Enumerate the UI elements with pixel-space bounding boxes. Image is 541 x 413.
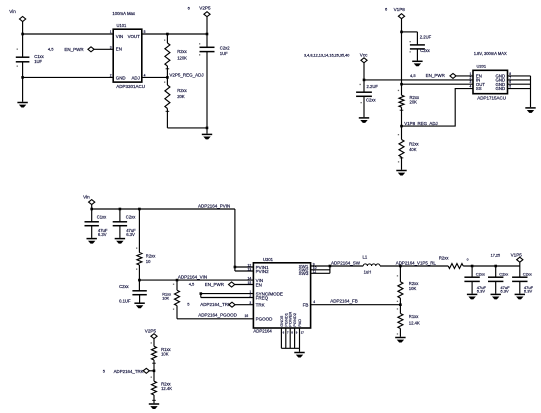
svg-text:3: 3 — [110, 45, 112, 49]
svg-text:C1xx: C1xx — [97, 215, 107, 220]
svg-text:2: 2 — [249, 294, 251, 298]
ground (FB divider) — [395, 337, 405, 339]
wire EN_PWR to EN pin — [235, 284, 254, 286]
svg-text:0.1UF: 0.1UF — [119, 298, 131, 303]
svg-text:V1P8_REG_ADJ: V1P8_REG_ADJ — [404, 121, 437, 126]
svg-text:VOUT: VOUT — [128, 34, 141, 39]
svg-text:TRK: TRK — [256, 303, 265, 308]
wire PVIN1 stub — [235, 266, 254, 268]
junction output capA — [471, 265, 474, 268]
svg-text:1UF: 1UF — [220, 51, 228, 56]
svg-text:6.3V: 6.3V — [126, 232, 135, 237]
svg-text:2.2UF: 2.2UF — [420, 35, 432, 40]
wire EN_PWR to EN pin — [94, 48, 113, 50]
wire capB to ground — [119, 226, 121, 238]
wire Vin to VIN pin — [23, 33, 114, 35]
wire PVIN rail — [92, 208, 235, 210]
wire Vcc down — [363, 63, 365, 92]
svg-text:ADP2164_TRK: ADP2164_TRK — [200, 302, 231, 307]
svg-text:40K: 40K — [409, 147, 417, 152]
svg-text:GND: GND — [496, 86, 506, 91]
svg-text:17: 17 — [301, 331, 305, 335]
svg-text:17,25: 17,25 — [491, 253, 501, 257]
junction Vin rail — [90, 208, 93, 211]
resistor R2xx 10 (VIN filter) — [138, 209, 140, 253]
wire ground bus — [281, 347, 299, 349]
svg-text:R2xx: R2xx — [177, 49, 187, 54]
svg-text:2: 2 — [110, 73, 112, 77]
ground (out cap B) — [491, 293, 501, 295]
wires bottom pins to ground bus — [280, 328, 282, 348]
svg-text:4,5: 4,5 — [410, 73, 416, 78]
junction VIN/cap — [138, 279, 141, 282]
svg-text:20K: 20K — [410, 100, 418, 105]
svg-text:V1P5: V1P5 — [511, 252, 523, 257]
capacitor C2xx 0.1UF — [138, 280, 140, 291]
svg-text:SW3: SW3 — [299, 271, 309, 276]
wire EN_PWR to EN — [456, 75, 473, 77]
svg-text:3: 3 — [470, 80, 472, 84]
wire cap branch — [402, 31, 418, 33]
capacitor C2xx 47uF (out C) — [519, 266, 521, 277]
wire FREQ tie — [201, 297, 254, 299]
svg-text:6.3V: 6.3V — [477, 289, 486, 294]
capacitor C2xx 47uF (out A) — [471, 266, 473, 277]
wire PAD to ground — [299, 348, 301, 352]
wire inductor to output node — [380, 265, 448, 267]
svg-text:16: 16 — [245, 314, 249, 318]
junction Vin/VIN — [21, 33, 24, 36]
junction V1P8_REG_ADJ — [400, 125, 403, 128]
junction cap branch — [400, 31, 403, 34]
svg-text:EN_PWR: EN_PWR — [205, 282, 225, 287]
wire SYNC/MODE tie — [201, 293, 254, 295]
svg-text:1UF: 1UF — [34, 59, 42, 64]
resistor R2xx 10K (FB top) — [399, 266, 401, 282]
svg-text:VIN: VIN — [116, 34, 123, 39]
wire cap to ground — [416, 49, 418, 61]
svg-text:L1: L1 — [363, 254, 368, 259]
resistor R2xx 12.4K (TRK bottom) — [153, 371, 155, 381]
capacitor C2xx 47uF (out B) — [495, 266, 497, 277]
svg-text:10K: 10K — [162, 296, 169, 301]
svg-text:12.4K: 12.4K — [161, 386, 172, 391]
svg-text:V1P8: V1P8 — [394, 7, 406, 12]
svg-text:4,5: 4,5 — [48, 47, 54, 52]
resistor R2xx 120K — [166, 34, 168, 43]
svg-text:3: 3 — [249, 301, 251, 305]
wire Vin stub — [91, 205, 93, 222]
ground (V2P5) — [202, 133, 212, 135]
svg-text:ADP2164_V1P5_RL: ADP2164_V1P5_RL — [396, 260, 437, 265]
wire SYNC-FREQ vertical — [200, 294, 202, 298]
capacitor C2xx 2.2UF (V1P8) — [410, 44, 425, 46]
junction bottom return — [206, 127, 209, 130]
svg-text:ADP2164_SW: ADP2164_SW — [331, 261, 361, 266]
svg-text:C2xx: C2xx — [420, 48, 430, 53]
svg-text:R2xx: R2xx — [439, 255, 449, 260]
svg-text:15: 15 — [248, 281, 252, 285]
wire capA to ground — [91, 226, 93, 238]
wire ADJ pin to divider — [142, 76, 168, 78]
wire PVIN drop to pins — [234, 209, 236, 271]
wire VOUT rail — [142, 33, 207, 35]
wire SW2 — [311, 269, 330, 271]
svg-text:6: 6 — [509, 80, 511, 84]
resistor R2xx 20K — [166, 77, 168, 85]
svg-text:1: 1 — [110, 30, 112, 34]
junction OUT/V1P8 — [400, 83, 403, 86]
junction ADJ node — [166, 76, 169, 79]
svg-text:FB: FB — [303, 302, 309, 307]
svg-text:EN_PWR: EN_PWR — [64, 47, 84, 52]
junction V1P5_RL — [399, 265, 402, 268]
svg-text:PGOOD: PGOOD — [256, 317, 274, 322]
wires GND pins to ground rail — [508, 75, 531, 77]
wire V1P8 vertical — [401, 19, 403, 96]
svg-text:4: 4 — [144, 73, 146, 77]
svg-text:6.3V: 6.3V — [500, 289, 509, 294]
resistor R1xx 12.4K (FB bottom) — [399, 305, 401, 314]
resistor R1xx 10K (PGOOD pullup) — [176, 280, 178, 290]
svg-text:120K: 120K — [177, 56, 187, 61]
wire SS to divider tap — [402, 89, 474, 127]
svg-text:V2P5_REG_ADJ: V2P5_REG_ADJ — [169, 72, 203, 77]
svg-text:U101: U101 — [117, 23, 128, 28]
svg-text:PAD: PAD — [297, 319, 302, 327]
svg-text:SS: SS — [476, 86, 482, 91]
wire TRK diamond stub — [149, 370, 154, 372]
ground (input cap A) — [87, 238, 97, 240]
svg-text:Vin: Vin — [83, 195, 90, 200]
svg-text:EN: EN — [116, 47, 122, 52]
svg-text:10K: 10K — [161, 352, 169, 357]
svg-text:6.3V: 6.3V — [524, 289, 533, 294]
junction SW tie — [329, 265, 332, 268]
wire V2P5 down to cap — [206, 17, 208, 48]
ground (U301 power pins) — [294, 352, 304, 354]
ground (0.1UF) — [134, 302, 144, 304]
ground (divider) — [396, 170, 406, 172]
wire cap to ground — [22, 62, 24, 102]
wire PVIN2 stub — [235, 270, 254, 272]
capacitor C2x2 1UF — [200, 46, 215, 48]
svg-text:C2xx: C2xx — [523, 272, 532, 277]
wire SW1 to inductor — [311, 265, 364, 267]
junction PVIN1 — [234, 266, 237, 269]
ground (out cap C) — [515, 293, 525, 295]
svg-text:R2xx: R2xx — [409, 141, 419, 146]
svg-text:C2xx: C2xx — [499, 272, 508, 277]
svg-text:ADP3301ACU: ADP3301ACU — [116, 84, 145, 89]
svg-text:1.8V, 300mA MAX: 1.8V, 300mA MAX — [474, 51, 507, 56]
op-amp U301 buck ADP2164 — [253, 263, 310, 328]
wire output rail — [463, 265, 520, 267]
junction TRK tap — [153, 370, 156, 373]
wire Vin vertical to cap — [22, 22, 24, 58]
resistor R2xx 40K — [401, 126, 403, 139]
capacitor C2xx 47uF (input B) — [119, 209, 121, 222]
svg-text:EN_PWR: EN_PWR — [426, 73, 446, 78]
svg-text:5: 5 — [509, 85, 511, 89]
svg-text:C2xx: C2xx — [126, 215, 136, 220]
svg-text:GND: GND — [116, 75, 126, 80]
wire cap to ground — [139, 295, 141, 303]
junction output capB — [494, 265, 497, 268]
wire V1P5 stub — [519, 262, 521, 266]
op-amp U101 regulator ADP3301ACU — [113, 29, 142, 82]
capacitor C1xx 47uF (input A) — [85, 221, 99, 223]
svg-text:ADP2164_FB: ADP2164_FB — [330, 299, 358, 304]
svg-text:Vin: Vin — [9, 9, 16, 14]
svg-text:14: 14 — [248, 276, 252, 280]
svg-text:ADP2164_PVIN: ADP2164_PVIN — [198, 203, 230, 208]
wire SW3 — [311, 272, 330, 274]
svg-text:ADP1715ACU: ADP1715ACU — [477, 96, 506, 101]
svg-text:ADJ: ADJ — [132, 75, 140, 80]
wire PGOOD — [177, 318, 253, 320]
svg-text:Vcc: Vcc — [360, 53, 368, 58]
wire SW tie vertical — [329, 266, 331, 273]
svg-text:V2P5: V2P5 — [145, 328, 157, 333]
wire GND pin to left rail — [23, 76, 114, 78]
svg-text:ADP2164_PGOOD: ADP2164_PGOOD — [198, 313, 237, 318]
wire FB — [311, 304, 401, 306]
op-amp U201 regulator ADP1715ACU — [473, 70, 508, 93]
svg-text:100mA Max: 100mA Max — [112, 11, 136, 16]
junction GND rail — [21, 76, 24, 79]
ground (V1P8 cap) — [412, 60, 422, 62]
svg-text:4: 4 — [470, 85, 472, 89]
ground (TRK divider) — [149, 403, 159, 405]
svg-text:12.4K: 12.4K — [409, 321, 420, 326]
ground (out cap A) — [467, 293, 477, 295]
svg-text:o: o — [467, 258, 469, 262]
junction VOUT/V2P5 line — [206, 33, 209, 36]
svg-text:2.2UF: 2.2UF — [367, 84, 379, 89]
ground (U201) — [525, 107, 535, 109]
svg-text:C2xx: C2xx — [119, 284, 129, 289]
svg-text:ADP2164_TRK: ADP2164_TRK — [114, 369, 144, 374]
resistor R1xx 10K (TRK top) — [152, 346, 157, 360]
svg-text:10: 10 — [146, 259, 151, 264]
svg-text:3,4,8,12,13,14,16,26,35,40: 3,4,8,12,13,14,16,26,35,40 — [304, 54, 349, 58]
wire Vcc to IN pin — [364, 79, 473, 81]
resistor R2xx 20K (V1P8 divider) — [399, 95, 404, 107]
inductor L1 1uH — [363, 264, 380, 266]
junction SYNC tie — [200, 292, 203, 295]
svg-text:PVIN2: PVIN2 — [256, 269, 270, 274]
svg-text:ADP2164: ADP2164 — [253, 328, 272, 333]
svg-text:R2xx: R2xx — [177, 88, 187, 93]
wire cap to ground (Vcc) — [363, 96, 365, 117]
svg-text:R1xx: R1xx — [409, 314, 419, 319]
junction VOUT/R divider — [166, 33, 169, 36]
svg-text:U201: U201 — [477, 64, 487, 69]
svg-text:4,5: 4,5 — [189, 282, 195, 287]
svg-text:C2x2: C2x2 — [220, 45, 230, 50]
svg-text:20K: 20K — [177, 94, 185, 99]
svg-text:6.3V: 6.3V — [98, 232, 107, 237]
svg-text:C2xx: C2xx — [366, 98, 376, 103]
capacitor C1xx 1UF — [16, 56, 30, 58]
svg-text:FREQ: FREQ — [256, 295, 269, 300]
capacitor C2xx 2.2UF (Vcc) — [356, 91, 372, 93]
junction FB — [399, 303, 402, 306]
wire cap to ground (V2P5) — [206, 52, 208, 134]
wire VIN to chip — [139, 279, 253, 281]
ground (Vcc cap) — [359, 117, 369, 119]
junction Vcc/cap — [363, 79, 366, 82]
svg-text:V2P5: V2P5 — [199, 6, 211, 11]
wire TRK stub — [235, 304, 253, 306]
svg-text:4: 4 — [313, 300, 315, 304]
svg-text:C2xx: C2xx — [476, 272, 485, 277]
svg-text:5: 5 — [144, 30, 146, 34]
ground (input cap B) — [115, 238, 125, 240]
svg-text:ADP2164_VIN: ADP2164_VIN — [178, 274, 207, 279]
svg-text:10K: 10K — [409, 286, 417, 291]
wire OUT pin to V1P8 — [402, 83, 474, 85]
svg-text:13: 13 — [248, 267, 252, 271]
svg-text:1uH: 1uH — [364, 269, 372, 274]
ground (top-left) — [17, 102, 27, 104]
wire divider return — [167, 127, 207, 129]
wire V2P5 down — [153, 339, 155, 347]
svg-text:EN: EN — [256, 282, 262, 287]
svg-text:U301: U301 — [263, 257, 274, 262]
